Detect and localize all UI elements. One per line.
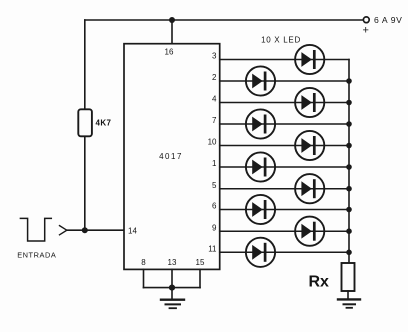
node bus row4 [346, 121, 352, 127]
svg-text:13: 13 [168, 258, 177, 267]
svg-text:Rx: Rx [309, 274, 330, 291]
input arrow [60, 226, 67, 235]
svg-text:+: + [363, 25, 369, 37]
wire LED bus vertical [348, 60, 350, 264]
svg-text:3: 3 [212, 52, 217, 61]
ground IC [161, 288, 184, 309]
node bus row6 [346, 164, 352, 170]
svg-text:14: 14 [128, 227, 137, 236]
node bus row8 [346, 207, 352, 213]
svg-text:ENTRADA: ENTRADA [17, 251, 56, 260]
pulse waveform symbol [20, 218, 51, 241]
svg-text:16: 16 [165, 48, 174, 57]
wire row pin7 [220, 123, 349, 125]
resistor R1 4K7 [78, 109, 92, 136]
wire row pin4 [220, 102, 349, 104]
node top-rail junction [169, 17, 175, 23]
svg-text:10 X LED: 10 X LED [261, 35, 301, 44]
LED D6 pin1 [246, 152, 275, 181]
svg-text:6 A 9V: 6 A 9V [374, 15, 402, 25]
node bus row5 [346, 143, 352, 149]
svg-text:4K7: 4K7 [96, 119, 112, 128]
LED D8 pin6 [246, 195, 275, 224]
wire row pin5 [220, 188, 349, 190]
svg-text:7: 7 [212, 116, 217, 125]
LED D10 pin11 [246, 238, 275, 267]
terminal +6-9V supply [363, 17, 369, 23]
wire row pin3 [220, 59, 349, 61]
node input junction [82, 227, 88, 233]
wire left rail lower [84, 136, 86, 230]
node ground junction [169, 285, 175, 291]
wire pin16 stub [171, 20, 173, 44]
wire pin15 stub [199, 269, 201, 287]
svg-text:2: 2 [212, 73, 217, 82]
LED D2 pin2 [246, 66, 275, 95]
wire V+ top rail [85, 19, 364, 21]
LED D3 pin4 [295, 88, 324, 117]
wire row pin2 [220, 80, 349, 82]
LED D9 pin9 [295, 217, 324, 246]
node bus row10 [346, 250, 352, 256]
LED D5 pin10 [295, 131, 324, 160]
resistor Rx [342, 263, 355, 291]
LED D1 pin3 [295, 45, 324, 74]
wire row pin6 [220, 209, 349, 211]
wire left rail upper [84, 20, 86, 110]
wire row pin9 [220, 230, 349, 232]
svg-text:15: 15 [196, 258, 205, 267]
wire input to pin14 [67, 229, 124, 231]
wire pin8 stub [143, 269, 145, 287]
node bus row3 [346, 100, 352, 106]
LED D7 pin5 [295, 174, 324, 203]
svg-text:5: 5 [212, 181, 217, 190]
wire Rx to ground [347, 291, 349, 299]
ground Rx [338, 299, 360, 307]
svg-text:9: 9 [212, 223, 217, 232]
LEDs [246, 45, 324, 267]
svg-text:8: 8 [141, 258, 146, 267]
wire row pin10 [220, 145, 349, 147]
svg-text:6: 6 [212, 202, 217, 211]
svg-text:10: 10 [208, 138, 217, 147]
rows: wires, pin labels, junction dots [208, 52, 352, 255]
wire row pin11 [220, 251, 349, 253]
LED D4 pin7 [246, 109, 275, 138]
svg-text:1: 1 [212, 159, 217, 168]
wire row pin1 [220, 166, 349, 168]
node bus row9 [346, 228, 352, 234]
wire bottom bus [144, 287, 201, 289]
op IC U1 4017 body [124, 44, 220, 270]
node bus row2 [346, 78, 352, 84]
svg-text:4: 4 [212, 95, 217, 104]
node bus row7 [346, 186, 352, 192]
wire pin13 stub [171, 269, 173, 287]
svg-text:4017: 4017 [159, 152, 183, 161]
svg-text:11: 11 [208, 245, 217, 254]
